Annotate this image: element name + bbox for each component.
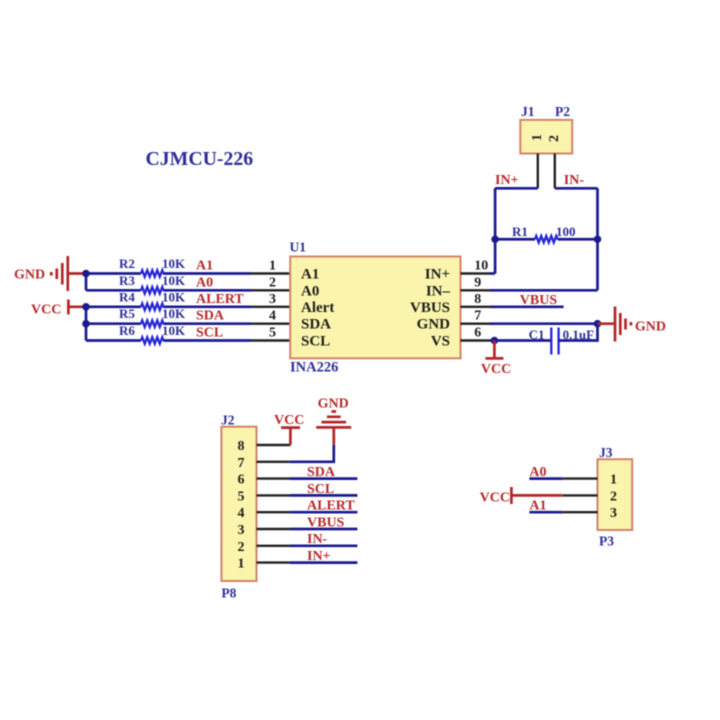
- wire row4 SDA: [86, 322, 251, 325]
- svg-text:P3: P3: [599, 533, 614, 548]
- wire pin8 VBUS: [490, 305, 564, 308]
- svg-text:3: 3: [238, 523, 245, 538]
- svg-text:9: 9: [474, 275, 481, 290]
- svg-text:VCC: VCC: [481, 362, 511, 377]
- svg-text:5: 5: [269, 326, 276, 341]
- VCC power symbol under pin6: [485, 341, 503, 359]
- wire left rail GND: [85, 274, 88, 291]
- pin stub J2 pin3: [257, 528, 291, 530]
- svg-text:Alert: Alert: [301, 300, 334, 316]
- svg-text:SCL: SCL: [301, 334, 330, 350]
- node VCC rail row3: [82, 303, 90, 311]
- svg-text:IN–: IN–: [426, 283, 451, 299]
- capacitor C1: [551, 328, 558, 355]
- resistor R1: [535, 236, 558, 243]
- svg-text:IN-: IN-: [564, 173, 585, 188]
- svg-text:U1: U1: [290, 240, 307, 255]
- ground symbol J2 (red stem): [316, 412, 351, 445]
- svg-text:A1: A1: [301, 267, 319, 283]
- svg-text:CJMCU-226: CJMCU-226: [146, 148, 254, 170]
- svg-text:3: 3: [269, 292, 276, 307]
- pin stub J2 pin5: [257, 494, 291, 496]
- resistor R6: [141, 337, 164, 344]
- svg-text:1: 1: [269, 259, 276, 274]
- resistor R2: [141, 270, 164, 277]
- svg-text:SCL: SCL: [196, 326, 223, 341]
- pin stubs U1 right pins 10-6: [461, 274, 494, 341]
- wire SCL J2: [290, 494, 357, 497]
- pin stubs J1: [538, 154, 555, 189]
- wire IN+ vertical: [494, 188, 497, 273]
- node GND right: [594, 320, 602, 328]
- wire pin10 to IN+ net: [490, 272, 495, 275]
- svg-text:6: 6: [238, 473, 245, 488]
- svg-text:R3: R3: [119, 273, 135, 288]
- svg-text:SDA: SDA: [307, 465, 336, 480]
- node R1 left: [491, 235, 499, 243]
- ground symbol right: [615, 307, 631, 342]
- wire IN- vertical: [596, 188, 599, 290]
- wire row3 ALERT: [86, 305, 251, 308]
- svg-text:2: 2: [610, 489, 617, 504]
- pin stub J2 pin2: [257, 545, 291, 547]
- svg-text:2: 2: [238, 540, 245, 555]
- svg-text:ALERT: ALERT: [196, 292, 244, 307]
- wire IN+ J2: [290, 561, 357, 564]
- svg-text:1: 1: [530, 134, 545, 141]
- svg-text:1: 1: [610, 473, 617, 488]
- wire SDA J2: [290, 477, 357, 480]
- svg-text:10: 10: [474, 259, 488, 274]
- svg-text:J3: J3: [599, 445, 613, 460]
- pin stub J2 pin1: [257, 561, 291, 563]
- wire C1 right to GND node: [559, 324, 598, 341]
- wire pin9 to IN- net: [490, 289, 598, 292]
- wire ALERT J2: [290, 511, 357, 514]
- svg-text:SDA: SDA: [301, 317, 331, 333]
- svg-text:VS: VS: [431, 334, 450, 350]
- svg-text:10K: 10K: [162, 256, 186, 271]
- svg-text:IN+: IN+: [307, 549, 331, 564]
- connector J2 box: [221, 427, 256, 581]
- svg-text:IN+: IN+: [425, 267, 450, 283]
- wire left rail VCC: [85, 307, 88, 341]
- svg-text:R6: R6: [119, 323, 135, 338]
- svg-text:A0: A0: [196, 275, 213, 290]
- wire pin7 to GND: [289, 445, 334, 462]
- svg-text:VBUS: VBUS: [410, 300, 450, 316]
- node rail row4: [82, 320, 90, 328]
- svg-text:VCC: VCC: [274, 413, 304, 428]
- svg-text:INA226: INA226: [290, 360, 338, 376]
- ground symbol left: [51, 256, 86, 291]
- resistor R4: [141, 304, 164, 311]
- VCC power symbol J3: [510, 487, 513, 504]
- svg-text:J1: J1: [521, 104, 535, 119]
- wire IN- J2: [290, 544, 357, 547]
- pin stubs J3: [563, 479, 598, 513]
- svg-text:SCL: SCL: [307, 482, 334, 497]
- connector J3 box: [598, 459, 633, 530]
- svg-text:VCC: VCC: [480, 491, 510, 506]
- pin stub J2 pin6: [257, 477, 291, 479]
- svg-text:2: 2: [547, 135, 562, 142]
- wire row1 A1: [86, 272, 251, 275]
- svg-text:A1: A1: [196, 259, 213, 274]
- svg-text:7: 7: [474, 309, 481, 324]
- pin stubs U1 left pins 1-5: [251, 274, 290, 341]
- VCC power symbol J2: [281, 428, 300, 445]
- svg-text:3: 3: [610, 506, 617, 521]
- svg-text:R2: R2: [119, 256, 135, 271]
- svg-text:4: 4: [269, 309, 276, 324]
- svg-text:SDA: SDA: [196, 309, 225, 324]
- svg-text:10K: 10K: [162, 306, 186, 321]
- svg-text:IN+: IN+: [495, 173, 519, 188]
- svg-text:10K: 10K: [162, 323, 186, 338]
- wire pin6 VS to C1: [493, 339, 551, 342]
- VCC power symbol left: [68, 300, 86, 315]
- connector J1 box: [520, 120, 572, 154]
- svg-text:7: 7: [238, 456, 245, 471]
- svg-text:A0: A0: [529, 465, 546, 480]
- svg-text:VBUS: VBUS: [307, 515, 345, 530]
- svg-text:J2: J2: [221, 413, 235, 428]
- wire pin7 GND net: [490, 322, 598, 325]
- svg-text:GND: GND: [417, 317, 451, 333]
- svg-text:1: 1: [238, 557, 245, 572]
- op-amp U1 box: [290, 257, 460, 359]
- wire red VCC J3: [511, 494, 562, 497]
- wire A1 J3: [529, 511, 562, 514]
- svg-text:IN-: IN-: [307, 532, 328, 547]
- resistor R3: [141, 287, 164, 294]
- svg-text:5: 5: [238, 489, 245, 504]
- pin stub J2 pin4: [257, 511, 291, 513]
- svg-text:10K: 10K: [162, 289, 186, 304]
- svg-text:P2: P2: [555, 104, 570, 119]
- pin stub J2 pin7: [257, 461, 290, 463]
- svg-text:P8: P8: [221, 586, 236, 601]
- wire VBUS J2: [290, 528, 357, 531]
- wire R1 row: [495, 238, 597, 241]
- svg-text:6: 6: [474, 326, 481, 341]
- svg-text:C1: C1: [529, 327, 545, 342]
- wire row5 SCL: [86, 339, 251, 342]
- node R1 right: [594, 235, 602, 243]
- svg-text:GND: GND: [635, 320, 666, 335]
- wire row2 A0: [86, 289, 251, 292]
- svg-text:8: 8: [474, 292, 481, 307]
- resistor R5: [141, 320, 164, 327]
- svg-text:ALERT: ALERT: [307, 499, 355, 514]
- svg-text:VBUS: VBUS: [520, 293, 558, 308]
- svg-text:A1: A1: [529, 499, 546, 514]
- wire red to right ground: [598, 322, 615, 325]
- svg-text:GND: GND: [14, 268, 45, 283]
- svg-text:A0: A0: [301, 283, 319, 299]
- wire IN+ horizontal: [495, 187, 538, 190]
- svg-text:R4: R4: [119, 289, 135, 304]
- svg-text:R5: R5: [119, 306, 135, 321]
- svg-text:GND: GND: [318, 397, 349, 412]
- svg-text:4: 4: [238, 506, 245, 521]
- svg-text:8: 8: [238, 439, 245, 454]
- svg-text:R1: R1: [512, 224, 528, 239]
- wire A0 J3: [529, 477, 562, 480]
- svg-text:10K: 10K: [162, 273, 186, 288]
- wire IN- horizontal: [555, 187, 598, 190]
- node VS VCC: [491, 337, 499, 345]
- svg-text:VCC: VCC: [31, 303, 61, 318]
- node GND rail row1: [82, 270, 90, 278]
- svg-text:2: 2: [269, 275, 276, 290]
- pin stub J2 pin8: [257, 444, 291, 446]
- svg-text:100: 100: [556, 224, 576, 239]
